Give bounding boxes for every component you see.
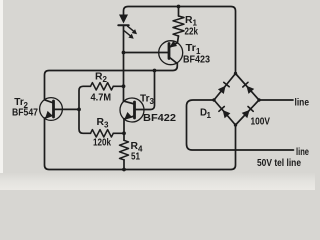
svg-text:2: 2: [103, 75, 108, 84]
svg-text:Tr: Tr: [14, 96, 23, 108]
svg-text:3: 3: [150, 97, 155, 106]
svg-text:3: 3: [104, 121, 109, 130]
svg-text:line: line: [296, 147, 309, 158]
svg-text:51: 51: [131, 151, 140, 162]
svg-text:4.7M: 4.7M: [91, 93, 112, 104]
svg-text:Tr: Tr: [186, 42, 197, 54]
svg-text:1: 1: [207, 111, 212, 120]
svg-text:Tr: Tr: [140, 93, 150, 105]
svg-text:120k: 120k: [93, 138, 111, 149]
svg-text:BF547: BF547: [12, 107, 38, 118]
svg-text:BF422: BF422: [143, 113, 176, 124]
svg-text:line: line: [295, 98, 310, 109]
svg-text:50V tel line: 50V tel line: [257, 158, 301, 169]
svg-text:BF423: BF423: [183, 55, 210, 66]
svg-text:22k: 22k: [185, 27, 199, 38]
svg-text:100V: 100V: [251, 117, 271, 128]
